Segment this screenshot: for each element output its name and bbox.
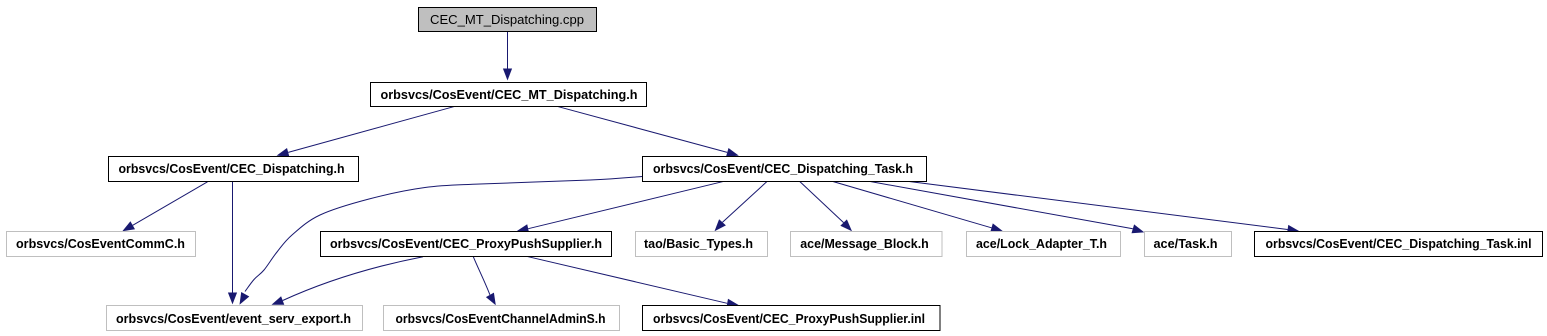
svg-text:ace/Message_Block.h: ace/Message_Block.h xyxy=(800,236,929,251)
node orbsvcs/CosEventChannelAdminS.h xyxy=(384,306,620,331)
wire edge CEC_ProxyPushSupplier.h -> CosEventChannelAdminS.h xyxy=(473,257,496,306)
wire edge CEC_Dispatching.h -> event_serv_export.h xyxy=(228,182,237,305)
wire edge CEC_MT_Dispatching.h -> CEC_Dispatching.h xyxy=(277,106,455,157)
node ace/Task.h xyxy=(1145,232,1232,257)
svg-text:ace/Lock_Adapter_T.h: ace/Lock_Adapter_T.h xyxy=(976,236,1107,251)
svg-text:orbsvcs/CosEventChannelAdminS.: orbsvcs/CosEventChannelAdminS.h xyxy=(396,311,606,326)
svg-text:ace/Task.h: ace/Task.h xyxy=(1154,236,1218,251)
node orbsvcs/CosEventCommC.h xyxy=(7,232,196,257)
node orbsvcs/CosEvent/CEC_Dispatching_Task.h xyxy=(643,157,927,182)
svg-text:tao/Basic_Types.h: tao/Basic_Types.h xyxy=(644,236,753,251)
svg-text:orbsvcs/CosEvent/CEC_Dispatchi: orbsvcs/CosEvent/CEC_Dispatching.h xyxy=(119,161,345,176)
node orbsvcs/CosEvent/CEC_ProxyPushSupplier.h xyxy=(321,232,612,257)
svg-text:orbsvcs/CosEvent/CEC_ProxyPush: orbsvcs/CosEvent/CEC_ProxyPushSupplier.h xyxy=(330,236,602,251)
wire edge CEC_Dispatching_Task.h -> tao/Basic_Types.h xyxy=(715,181,768,231)
node ace/Message_Block.h xyxy=(791,232,943,257)
wire edge CEC_MT_Dispatching.h -> CEC_Dispatching_Task.h xyxy=(557,106,739,157)
wire edge CEC_Dispatching_Task.h -> CEC_Dispatching_Task.inl xyxy=(908,181,1299,234)
wire edge CEC_Dispatching_Task.h -> ace/Message_Block.h xyxy=(800,181,853,231)
node orbsvcs/CosEvent/CEC_Dispatching_Task.inl xyxy=(1255,232,1543,257)
wire edge CEC_MT_Dispatching.cpp -> CEC_MT_Dispatching.h xyxy=(503,32,512,81)
node orbsvcs/CosEvent/CEC_ProxyPushSupplier.inl xyxy=(643,306,941,331)
wire edge CEC_Dispatching_Task.h -> event_serv_export.h (long curve) xyxy=(240,177,643,305)
wire edge CEC_ProxyPushSupplier.h -> event_serv_export.h xyxy=(272,257,424,305)
svg-text:CEC_MT_Dispatching.cpp: CEC_MT_Dispatching.cpp xyxy=(430,12,584,27)
wire edge CEC_Dispatching_Task.h -> ace/Lock_Adapter_T.h xyxy=(833,181,1004,232)
svg-text:orbsvcs/CosEvent/CEC_MT_Dispat: orbsvcs/CosEvent/CEC_MT_Dispatching.h xyxy=(381,87,638,102)
wire edge CEC_Dispatching.h -> CosEventCommC.h xyxy=(122,182,207,232)
node ace/Lock_Adapter_T.h xyxy=(967,232,1121,257)
svg-text:orbsvcs/CosEvent/CEC_Dispatchi: orbsvcs/CosEvent/CEC_Dispatching_Task.in… xyxy=(1266,236,1532,251)
svg-text:orbsvcs/CosEventCommC.h: orbsvcs/CosEventCommC.h xyxy=(16,236,185,251)
wire edge CEC_Dispatching_Task.h -> ace/Task.h xyxy=(870,181,1145,233)
wire edge CEC_ProxyPushSupplier.h -> CEC_ProxyPushSupplier.inl xyxy=(527,256,740,308)
node orbsvcs/CosEvent/CEC_MT_Dispatching.h xyxy=(371,83,647,107)
svg-text:orbsvcs/CosEvent/CEC_ProxyPush: orbsvcs/CosEvent/CEC_ProxyPushSupplier.i… xyxy=(653,311,925,326)
node CEC_MT_Dispatching.cpp (filled) xyxy=(419,8,597,32)
svg-text:orbsvcs/CosEvent/event_serv_ex: orbsvcs/CosEvent/event_serv_export.h xyxy=(116,311,351,326)
node orbsvcs/CosEvent/event_serv_export.h xyxy=(107,306,363,331)
node tao/Basic_Types.h xyxy=(636,232,768,257)
svg-text:orbsvcs/CosEvent/CEC_Dispatchi: orbsvcs/CosEvent/CEC_Dispatching_Task.h xyxy=(653,161,913,176)
node orbsvcs/CosEvent/CEC_Dispatching.h xyxy=(109,157,359,182)
wire edge CEC_Dispatching_Task.h -> CEC_ProxyPushSupplier.h xyxy=(517,181,725,233)
